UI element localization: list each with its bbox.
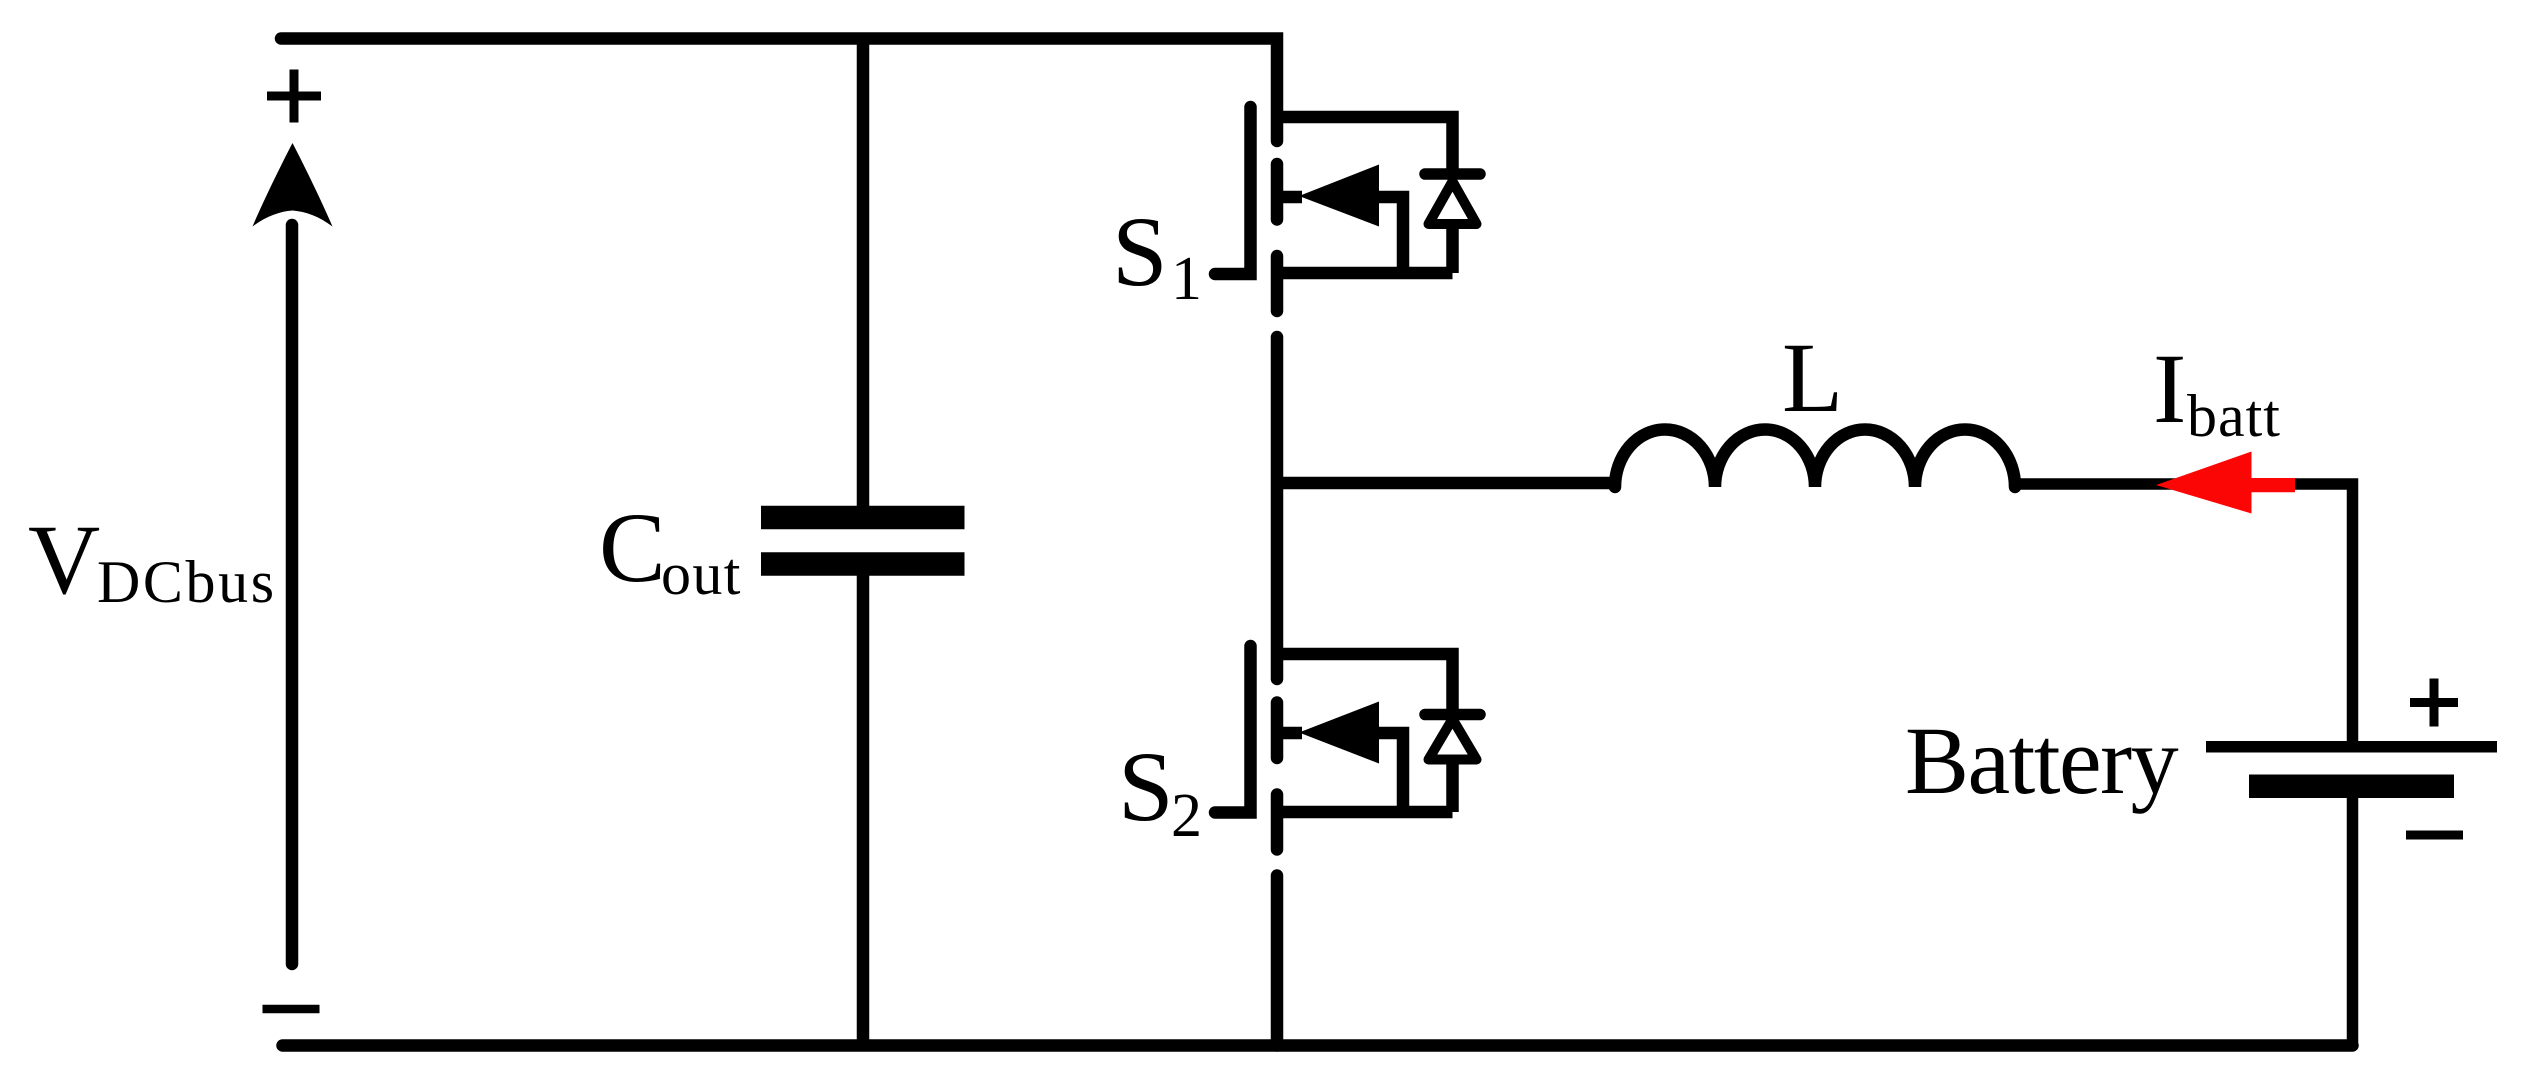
transistor S2 channel dash 3 (1271, 795, 1284, 850)
svg-text:DCbus: DCbus (97, 549, 277, 615)
svg-text:Battery: Battery (1905, 707, 2179, 814)
svg-text:S: S (1118, 731, 1174, 842)
svg-text:I: I (2153, 333, 2186, 444)
label S1 (1112, 196, 1202, 313)
wire capacitor bottom lead to bottom bus (857, 576, 870, 1046)
transistor S2 drain bar and right loop down to diode (1277, 654, 1453, 715)
transistor S2 body arrow (1299, 702, 1379, 764)
transistor S1 drain bar and right loop down to diode (1277, 117, 1453, 174)
wire inductor to battery corner (2014, 484, 2353, 741)
diode D2 triangle (1429, 719, 1477, 760)
transistor S1 body-source link (1379, 197, 1403, 273)
wire battery bottom lead to bottom bus (2347, 798, 2359, 1046)
transistor S1 body tap line (1277, 191, 1302, 204)
label S2 (1118, 731, 1202, 850)
transistor S2 gate bar and gate lead (1215, 646, 1251, 813)
diode D1 anode lead (1446, 224, 1459, 273)
svg-text:S: S (1112, 196, 1168, 307)
svg-text:batt: batt (2187, 383, 2281, 449)
transistor S1 channel dash 3 (1271, 256, 1284, 311)
label Cout (599, 492, 742, 607)
minus sign battery (2406, 831, 2463, 840)
current arrow Ibatt (red) head (2156, 452, 2252, 514)
node A capacitor top junction (857, 39, 870, 507)
wire S1 source lead down to mid node and S2 drain lead (1271, 337, 1284, 679)
capacitor C_out bottom plate (761, 552, 965, 576)
battery bottom plate (negative, short thick) (2249, 774, 2454, 798)
svg-text:L: L (1782, 322, 1843, 433)
current arrow Ibatt (red) tail (2252, 478, 2296, 492)
capacitor C_out top plate (761, 506, 965, 530)
svg-text:2: 2 (1171, 782, 1202, 850)
label Battery (1905, 707, 2179, 814)
wire S2 source lead to bottom bus (1271, 876, 1284, 1046)
svg-text:1: 1 (1171, 245, 1202, 313)
transistor S2 body-source link (1379, 733, 1403, 812)
transistor S2 body tap line (1277, 727, 1302, 740)
svg-text:out: out (661, 541, 742, 607)
transistor S1 source bar (1277, 267, 1453, 280)
battery top plate (positive, long) (2206, 741, 2497, 753)
transistor S2 source bar (1277, 806, 1453, 819)
plus sign battery (2410, 679, 2458, 727)
diode D1 triangle (1429, 182, 1477, 225)
label VDCbus (28, 504, 277, 615)
minus sign DC bus bottom (263, 1005, 320, 1014)
svg-text:V: V (28, 504, 100, 615)
wire bottom bus (283, 1039, 2353, 1052)
transistor S1 channel dash 2 (1271, 164, 1284, 220)
VDCbus arrow shaft (286, 225, 299, 964)
transistor S1 gate bar and gate lead (1215, 107, 1251, 274)
VDCbus arrowhead (253, 143, 333, 227)
diode D2 anode lead (1446, 760, 1459, 813)
diode D1 cathode bar (1425, 168, 1480, 180)
label Ibatt (2153, 333, 2281, 449)
plus sign DC bus top (267, 70, 321, 123)
diode D2 cathode bar (1425, 709, 1480, 721)
inductor L coils (1615, 429, 2015, 487)
transistor S1 body arrow (1299, 165, 1379, 227)
svg-text:C: C (599, 492, 666, 603)
wire top bus from DC side to half-bridge drain corner (281, 39, 1277, 142)
label L (1782, 322, 1843, 433)
transistor S2 channel dash 2 (1271, 703, 1284, 759)
wire mid node to inductor (1277, 477, 1616, 490)
